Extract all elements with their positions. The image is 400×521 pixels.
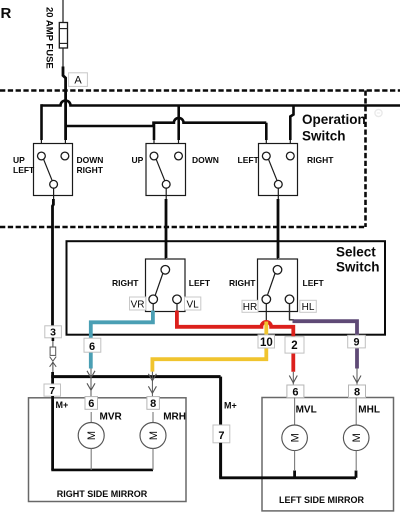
svg-text:MHL: MHL [358, 404, 380, 415]
lead SS1 VR terminal [152, 304, 154, 311]
svg-text:RIGHT: RIGHT [229, 278, 256, 288]
terminal label VL [185, 297, 201, 310]
svg-text:6: 6 [89, 341, 95, 353]
thick M+ stub below 3 box [52, 338, 55, 341]
M+ bus wire (horizontal) [51, 372, 54, 384]
motor MHL [343, 398, 369, 471]
svg-text:6: 6 [88, 398, 94, 410]
svg-text:LEFT SIDE MIRROR: LEFT SIDE MIRROR [279, 495, 364, 505]
svg-text:RIGHT: RIGHT [307, 155, 334, 165]
watermark circle [375, 109, 382, 116]
wire from top to fuse [62, 0, 64, 23]
Select Switch outer box [67, 241, 386, 335]
svg-text:M: M [148, 431, 160, 440]
select switch SS2 [258, 259, 298, 312]
lead SS1 VL terminal [176, 304, 178, 311]
fuse F1 20 AMP FUSE [59, 23, 67, 49]
wire bus1 drop to SW2 right terminal [177, 106, 180, 141]
wire bus1 left drop to SW1 left terminal [40, 104, 43, 140]
wire SW2 common down to select switch SS1 [165, 188, 167, 200]
svg-text:M: M [86, 431, 98, 440]
svg-text:LEFT: LEFT [303, 278, 325, 288]
connector arrows blue wire into terminal 6 [87, 369, 95, 397]
svg-text:MVL: MVL [296, 404, 317, 415]
motor MVR [78, 412, 104, 470]
wire fuse feed down to switch SW1 right terminal [64, 91, 67, 141]
left mirror box [262, 398, 394, 511]
bus wire 1 (upper horizontal) with hop over fuse wire [42, 101, 400, 106]
svg-text:DOWN: DOWN [77, 155, 104, 165]
terminal 6 box left mirror [287, 385, 304, 399]
svg-text:MVR: MVR [100, 412, 123, 423]
svg-text:R: R [1, 5, 12, 22]
connector arrow red wire into terminal 6 [289, 372, 297, 385]
svg-text:RIGHT: RIGHT [112, 278, 139, 288]
connector arrows yellow wire into terminal 8 [148, 372, 156, 397]
svg-text:LEFT: LEFT [189, 278, 211, 288]
motor MVL [282, 398, 308, 471]
wire HL purple to left mirror MHL [293, 321, 358, 368]
connector 7 box (right mirror M+) [44, 384, 61, 397]
wire bus2 drop to SW2 left terminal [153, 123, 156, 140]
svg-text:A: A [74, 74, 82, 86]
svg-text:MRH: MRH [163, 412, 186, 423]
wire VL red to left mirror MVL (hop over yellow) [177, 311, 293, 372]
lead SS2 HR terminal [265, 304, 267, 321]
svg-text:7: 7 [49, 385, 55, 397]
svg-text:HR: HR [243, 302, 257, 313]
inline connector 10 on yellow wire [258, 335, 275, 349]
svg-text:9: 9 [353, 337, 359, 349]
motor MRH [140, 412, 166, 470]
svg-text:VL: VL [186, 299, 199, 310]
switch SW1 (UP LEFT / DOWN RIGHT) [34, 144, 73, 196]
lead SS2 HL terminal [290, 304, 295, 320]
svg-text:M+: M+ [224, 401, 237, 411]
connector arrow purple wire into terminal 8 [353, 369, 361, 386]
svg-text:M+: M+ [56, 400, 69, 410]
wire fuse to node A [62, 48, 64, 67]
switch SW3 (LEFT / RIGHT) [259, 144, 298, 196]
inline connector 2 on red wire [285, 337, 304, 353]
terminal 6 box right mirror [85, 397, 98, 410]
right mirror box [29, 398, 187, 502]
terminal 8 box left mirror [349, 385, 366, 399]
connector 3 box [45, 326, 62, 339]
svg-text:2: 2 [291, 340, 297, 352]
svg-text:LEFT: LEFT [238, 155, 260, 165]
svg-text:3: 3 [50, 327, 56, 339]
terminal label HL [300, 300, 317, 313]
wire SW3 common down to select switch SS2 [277, 188, 279, 200]
wire bus1 drop to SW3 right terminal [290, 106, 293, 141]
bus wire 2 (lower horizontal, from fuse feed) with hop over SW2 drop [66, 118, 267, 126]
svg-text:Operation: Operation [302, 112, 366, 127]
svg-text:UP: UP [132, 155, 144, 165]
svg-text:7: 7 [218, 430, 224, 442]
svg-text:10: 10 [260, 337, 273, 349]
inline connector 6 on blue wire [84, 338, 101, 353]
svg-text:8: 8 [150, 398, 156, 410]
svg-text:20 AMP FUSE: 20 AMP FUSE [44, 7, 55, 69]
svg-text:6: 6 [292, 387, 298, 399]
terminal label VR [130, 297, 146, 310]
svg-text:Select: Select [336, 244, 376, 259]
wire bus2 drop to SW3 left terminal [265, 123, 268, 140]
select switch SS1 [146, 259, 186, 312]
svg-text:UP: UP [13, 155, 25, 165]
svg-text:DOWN: DOWN [192, 155, 219, 165]
svg-text:8: 8 [354, 387, 360, 399]
dashed boundary bottom [0, 226, 367, 229]
terminal 8 box right mirror [147, 397, 160, 410]
node A label box [69, 73, 88, 87]
wire VR blue to right mirror MVR [91, 311, 153, 340]
wire HR yellow to right mirror MRH [152, 322, 266, 372]
M+ wire inside right mirror [51, 396, 54, 470]
terminal label HR [242, 300, 258, 313]
M+ wire into left mirror [219, 443, 222, 478]
dashed boundary right [364, 91, 367, 228]
svg-text:M: M [290, 433, 302, 442]
svg-text:RIGHT SIDE MIRROR: RIGHT SIDE MIRROR [57, 489, 148, 499]
wire SW1 common down to connector 3 [53, 188, 55, 200]
switch SW2 (UP / DOWN) [146, 144, 186, 196]
svg-text:RIGHT: RIGHT [77, 165, 104, 175]
svg-text:Switch: Switch [336, 259, 380, 274]
svg-text:Switch: Switch [302, 128, 346, 143]
svg-text:HL: HL [302, 302, 315, 313]
svg-text:LEFT: LEFT [13, 165, 35, 175]
inline connector 9 on purple wire [348, 335, 366, 348]
dashed boundary top (Operation Switch box) [0, 89, 400, 92]
svg-text:VR: VR [131, 299, 145, 310]
svg-text:M: M [351, 433, 363, 442]
connector symbol below 3 (socket + plug arrow) [50, 338, 57, 372]
M+ drop to left mirror [219, 377, 222, 425]
connector 7 box (left mirror M+) [213, 425, 230, 443]
